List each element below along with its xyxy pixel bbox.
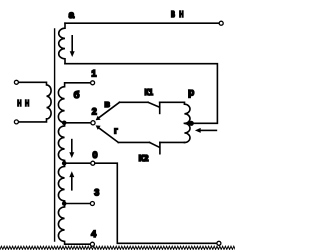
- wire: tap 3 to terminal 3: [64, 203, 90, 205]
- winding б (section terminal 1 to tap 2): [58, 83, 90, 123]
- svg-text:р: р: [188, 88, 194, 99]
- terminal 4: [90, 242, 94, 246]
- terminal 0: [91, 161, 95, 165]
- svg-text:Н: Н: [17, 98, 21, 108]
- winding section tap 3 to terminal 4: [58, 204, 90, 245]
- svg-text:В: В: [171, 10, 175, 19]
- contact K1: [120, 102, 185, 113]
- label Н Н: [17, 98, 29, 108]
- junction dot at coil р tap: [189, 121, 194, 126]
- wire: terminal 0 to bottom output terminal: [95, 163, 217, 243]
- terminal ВН: [219, 21, 223, 25]
- wire: tap 0 to terminal 0: [64, 162, 90, 164]
- svg-text:1: 1: [91, 68, 96, 78]
- label В Н (high voltage): [171, 10, 184, 19]
- svg-text:3: 3: [94, 188, 99, 198]
- transformer core: [54, 29, 56, 241]
- svg-text:в: в: [104, 99, 110, 109]
- winding a (regulating winding, label а): [59, 23, 65, 64]
- junction dot at winding tap 2: [62, 121, 67, 126]
- svg-text:г: г: [114, 126, 118, 136]
- svg-text:К1: К1: [145, 87, 154, 97]
- svg-text:Н: Н: [179, 10, 183, 19]
- arrow (flux direction) down in section 2-0: [69, 139, 74, 158]
- svg-text:К2: К2: [139, 153, 149, 163]
- arrow (flux direction) in winding a: [70, 35, 75, 57]
- winding НН (low voltage primary): [19, 82, 52, 122]
- coil р (contactor winding): [184, 102, 190, 142]
- junction dot at winding tap 0: [62, 161, 67, 166]
- arrow (flux direction) up in section 0-3: [69, 171, 74, 190]
- bottom output terminal: [217, 241, 221, 245]
- svg-text:а: а: [69, 10, 75, 21]
- wire: winding a bottom feed to the right: [65, 64, 217, 124]
- svg-text:Н: Н: [25, 98, 29, 108]
- wire: tap 2 to node 2: [64, 122, 90, 124]
- wire в: node 2 to contact K1 (with arrowhead at node): [96, 102, 120, 120]
- winding section tap 2 to tap 0: [58, 123, 64, 163]
- svg-text:0: 0: [92, 150, 97, 160]
- contact K2: [118, 142, 184, 153]
- wire г: node 2 to contact K2 (with arrowhead at node): [96, 125, 119, 142]
- node 2 terminal: [91, 121, 95, 125]
- wiper arrow pointing left at coil р: [195, 128, 217, 133]
- svg-text:4: 4: [91, 229, 96, 239]
- wire: center tap of coil р: [184, 122, 191, 124]
- winding section tap 0 to tap 3: [58, 163, 64, 203]
- junction dot at winding tap 3: [62, 201, 67, 206]
- terminal НН bottom: [14, 120, 18, 124]
- terminal 3: [90, 202, 94, 206]
- wire: winding a top to VN terminal: [65, 22, 219, 24]
- terminal 1: [91, 81, 95, 85]
- earth hatch line along bottom: [0, 246, 238, 249]
- terminal НН top: [14, 80, 18, 84]
- svg-text:2: 2: [92, 106, 97, 116]
- svg-text:б: б: [74, 90, 80, 101]
